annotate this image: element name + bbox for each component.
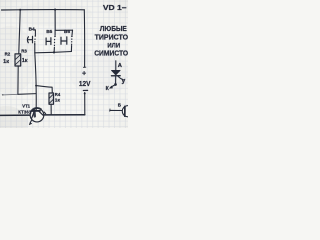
wire SB2 bottom section (53, 47, 55, 52)
transistor VT1 emitter lead with arrow (30, 120, 32, 123)
svg-text:1к: 1к (55, 97, 61, 103)
transistor VT1 emitter stroke to bus (39, 111, 43, 115)
wire lower left bus (18, 93, 36, 96)
wire battery minus lead (84, 93, 86, 115)
junction node SB2 bottom (53, 51, 55, 53)
transistor pinout base bar (124, 106, 126, 116)
svg-text:R4: R4 (55, 92, 61, 97)
wire SB2 dashed actuator section (53, 40, 55, 46)
wire R3 branch from top bus (19, 10, 20, 54)
junction node R3 tap (19, 9, 21, 11)
node SB3 top terminal (71, 36, 73, 38)
svg-text:ИЛИ: ИЛИ (107, 42, 120, 49)
transistor VT1 collector stroke (32, 111, 35, 118)
wire SB3 dashed actuator section (71, 39, 73, 44)
wire SB1 (B4) column down to VT1 base (35, 43, 36, 109)
wire SB2 (B5) feed from top bus (55, 10, 73, 31)
wire buttons bottom bus (35, 52, 72, 53)
svg-text:R3: R3 (21, 49, 27, 54)
junction node SB feed tap (54, 9, 56, 11)
thyristor pinout cathode node (114, 83, 117, 86)
svg-text:ТИРИСТОРЫ: ТИРИСТОРЫ (95, 35, 128, 42)
thyristor pinout cathode arrow (111, 85, 114, 87)
wire emitter bus bottom (0, 114, 85, 117)
wire R4 bottom to emitter bus (50, 104, 52, 114)
wire branch to R4 (36, 86, 52, 94)
thyristor pinout cathode lead (115, 76, 117, 83)
resistor R3 (15, 54, 21, 66)
wire SB1 dashed actuator section (34, 39, 36, 44)
wire SB3 (B6) top section (71, 30, 74, 35)
push button SB2 (B5) contact (46, 38, 51, 45)
wire R3 bottom to lower bus (17, 66, 19, 94)
battery minus sign (83, 89, 87, 91)
node SB1 top terminal (35, 35, 37, 37)
svg-text:КТ361: КТ361 (18, 109, 32, 114)
svg-text:+: + (82, 68, 86, 77)
resistor R4 (49, 93, 54, 104)
push button SB3 (B6) contact (61, 37, 67, 45)
transistor VT1 body (30, 108, 44, 122)
wire right riser to battery plus (83, 10, 85, 67)
transistor VT1 emitter arrowhead at bus (44, 112, 45, 114)
svg-text:1к: 1к (3, 59, 9, 65)
wire lower left bus faint stub (to cropped R2) (3, 93, 18, 96)
svg-text:у: у (122, 78, 126, 85)
junction node base/R4 branch (35, 85, 37, 87)
thyristor pinout gate lead (118, 76, 124, 80)
wire SB2 top section (54, 30, 56, 35)
battery plus end tick (83, 66, 85, 68)
svg-text:ЛЮБЫЕ: ЛЮБЫЕ (100, 26, 127, 33)
transistor VT1 inner ink blob (33, 110, 36, 116)
svg-text:СИМИСТОРЫ: СИМИСТОРЫ (94, 51, 128, 58)
svg-text:В6: В6 (64, 29, 70, 35)
svg-text:12V: 12V (79, 79, 91, 88)
wire top bus (2, 9, 85, 11)
svg-text:В4: В4 (29, 27, 35, 33)
transistor VT1 base lead into circle (35, 109, 37, 111)
node left end (2, 94, 4, 96)
thyristor pinout triangle (111, 70, 120, 75)
svg-text:VD 1–: VD 1– (103, 5, 127, 12)
node SB2 top terminal (54, 36, 56, 38)
svg-text:VT1: VT1 (22, 103, 30, 108)
transistor pinout body circle (122, 106, 133, 117)
transistor pinout base lead (110, 109, 122, 111)
node battery minus terminal (84, 93, 86, 95)
wire SB1 (B4) column top hook (34, 30, 36, 35)
svg-text:R2: R2 (5, 51, 11, 56)
transistor VT1 base bar (32, 110, 40, 112)
wire SB3 bottom section (70, 46, 72, 52)
svg-text:1к: 1к (22, 58, 28, 64)
thyristor pinout anode lead (115, 61, 117, 71)
push button SB1 (B4) contact (27, 36, 32, 43)
svg-text:В5: В5 (46, 29, 52, 35)
thyristor pinout cathode bar (111, 75, 120, 77)
